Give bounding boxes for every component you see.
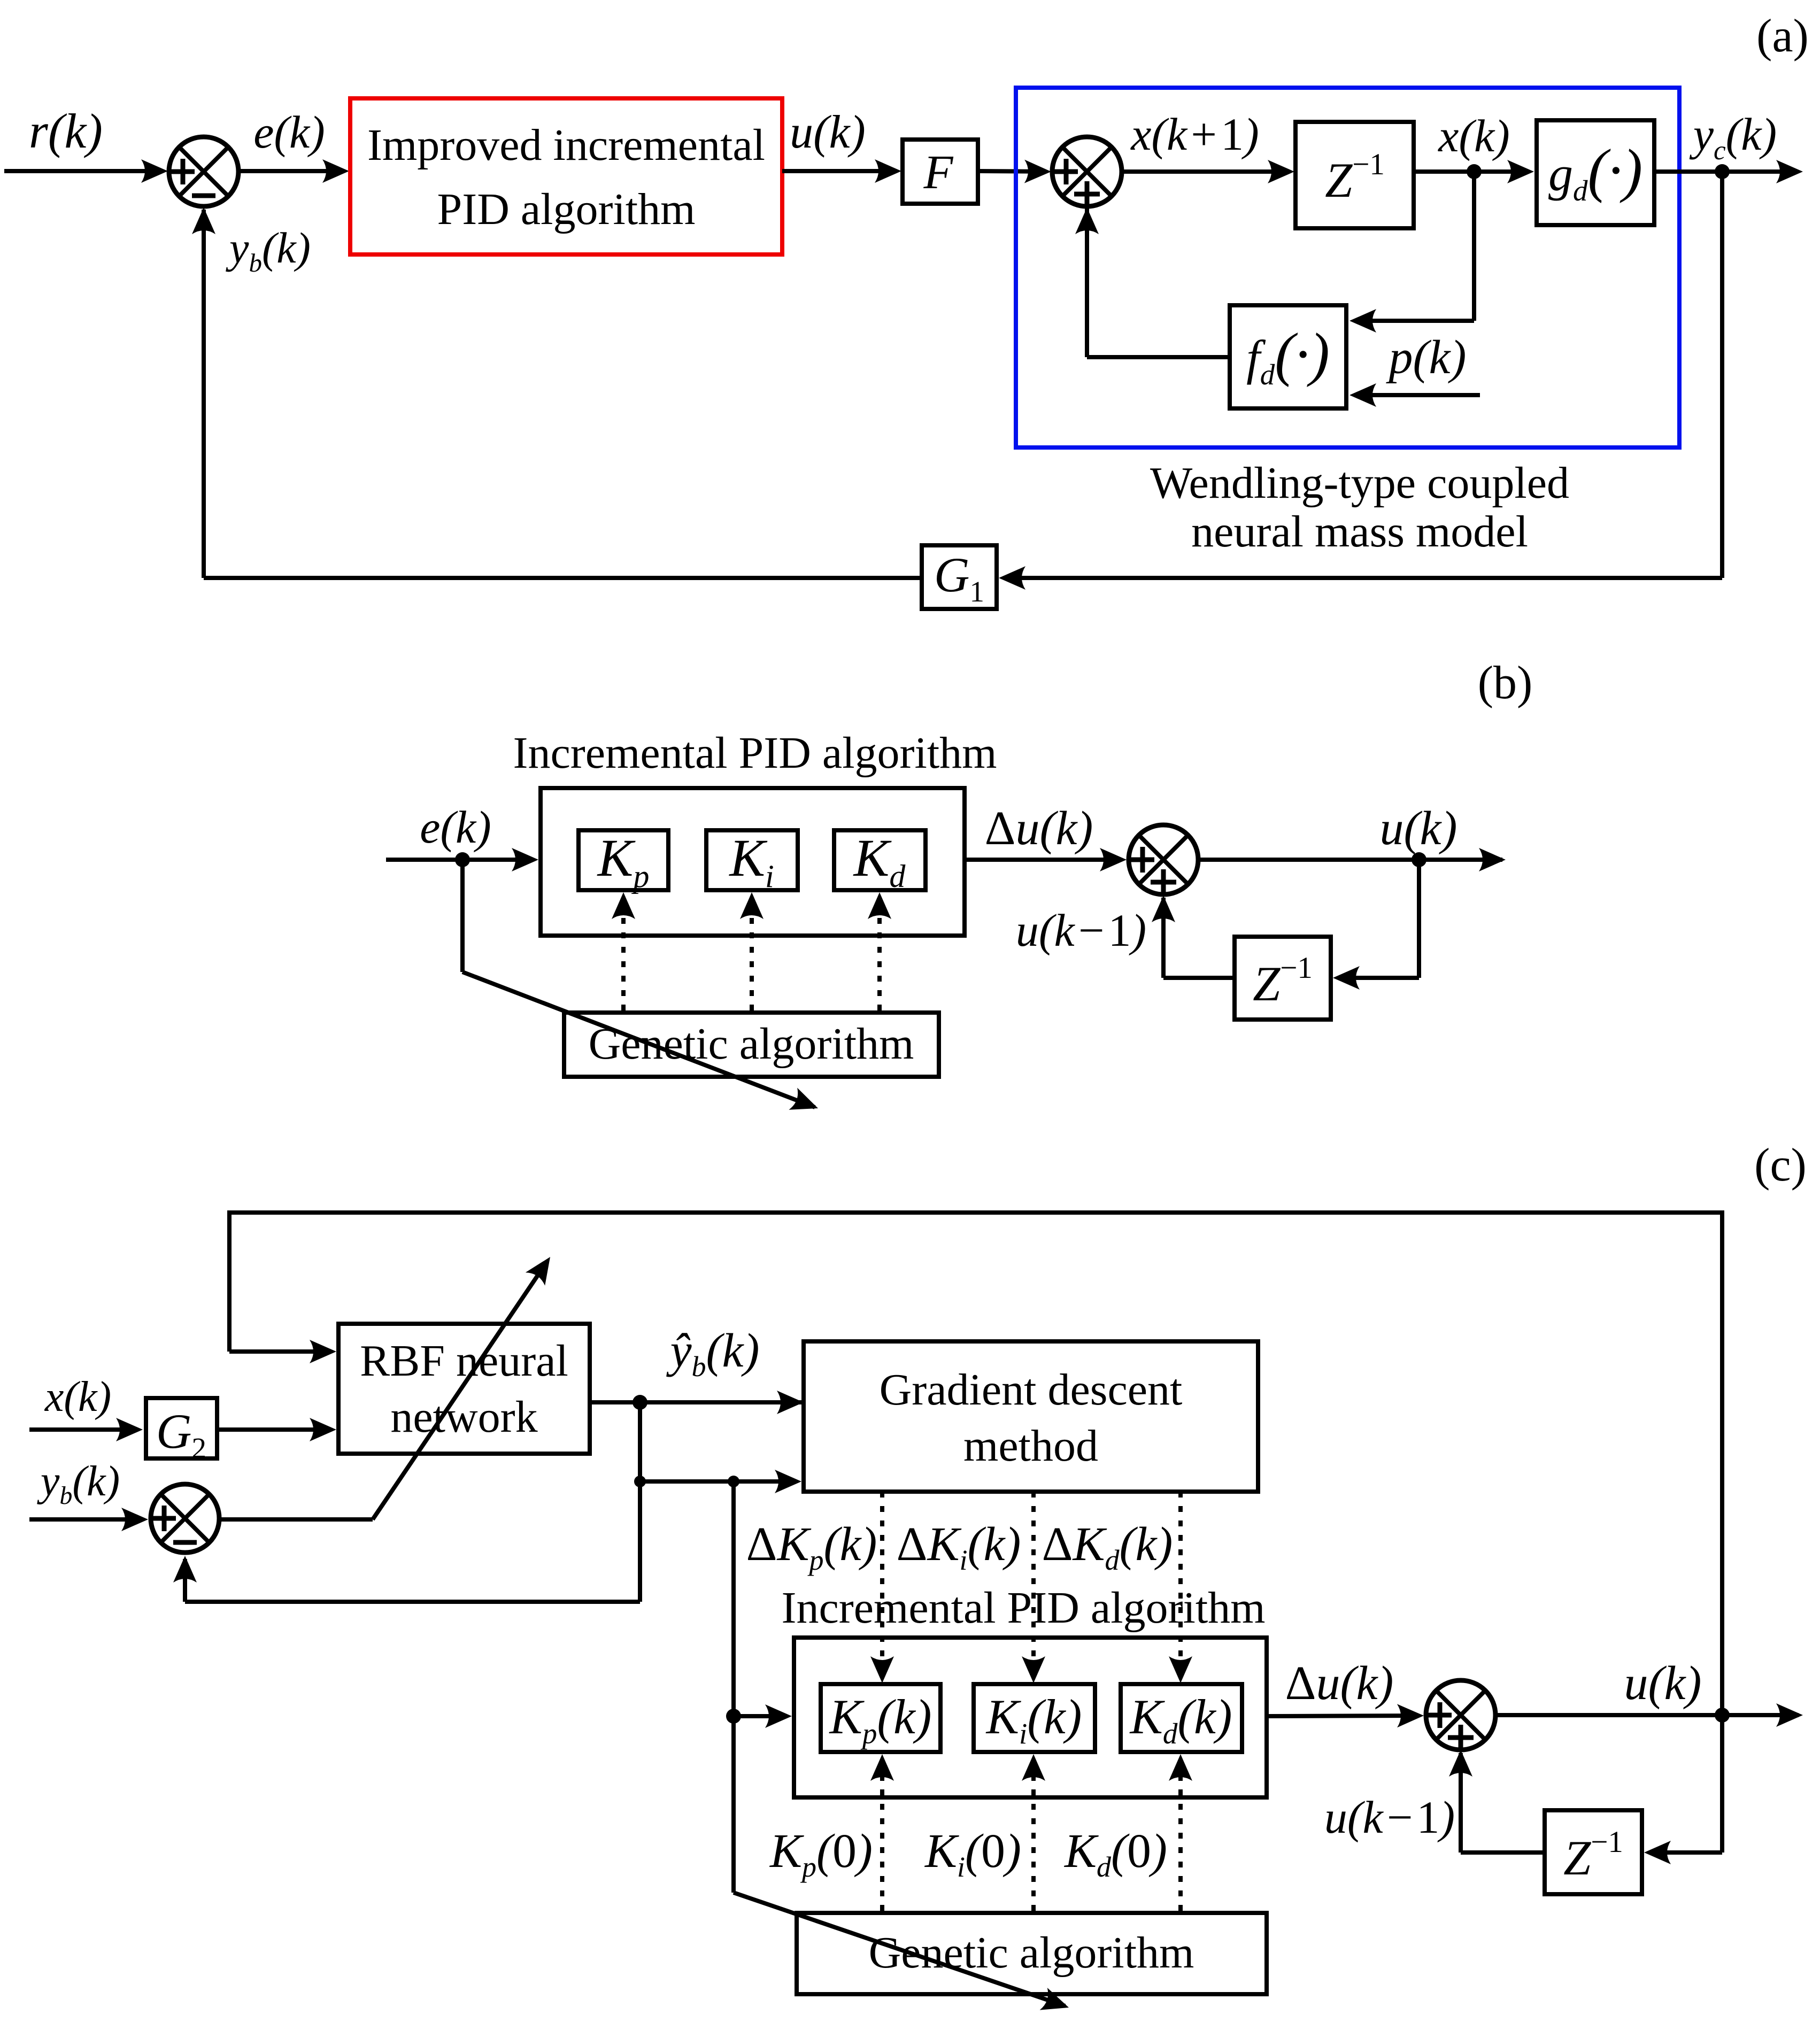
- svg-text:Kp(k): Kp(k): [829, 1689, 932, 1750]
- svg-text:x(k): x(k): [44, 1373, 111, 1421]
- svg-text:F: F: [923, 146, 954, 199]
- svg-text:Incremental PID algorithm: Incremental PID algorithm: [513, 728, 997, 778]
- svg-text:u(k): u(k): [1380, 802, 1457, 855]
- svg-text:(b): (b): [1478, 657, 1533, 709]
- svg-text:(a): (a): [1756, 10, 1809, 62]
- svg-text:r(k): r(k): [29, 104, 103, 158]
- svg-text:Incremental PID algorithm: Incremental PID algorithm: [781, 1583, 1265, 1633]
- svg-text:Genetic algorithm: Genetic algorithm: [869, 1928, 1194, 1978]
- svg-text:ΔKi(k): ΔKi(k): [897, 1518, 1021, 1576]
- svg-text:e(k): e(k): [420, 801, 491, 853]
- svg-text:Δu(k): Δu(k): [1285, 1657, 1394, 1710]
- svg-text:Ki(k): Ki(k): [985, 1689, 1082, 1750]
- svg-text:Kd(0): Kd(0): [1063, 1825, 1167, 1883]
- svg-text:u(k): u(k): [1624, 1657, 1702, 1710]
- svg-text:yc(k): yc(k): [1689, 109, 1777, 166]
- svg-text:method: method: [963, 1421, 1098, 1471]
- svg-text:Kd(k): Kd(k): [1129, 1689, 1232, 1750]
- svg-text:Wendling-type coupled: Wendling-type coupled: [1150, 458, 1569, 508]
- svg-text:PID algorithm: PID algorithm: [437, 184, 696, 234]
- svg-text:yb(k): yb(k): [37, 1458, 120, 1510]
- svg-text:Ki(0): Ki(0): [924, 1825, 1021, 1883]
- svg-text:Improved incremental: Improved incremental: [367, 120, 765, 170]
- svg-text:ŷb(k): ŷb(k): [666, 1324, 760, 1383]
- svg-text:e(k): e(k): [253, 106, 325, 158]
- svg-text:x(k): x(k): [1437, 110, 1510, 161]
- svg-text:gd(·): gd(·): [1548, 137, 1642, 207]
- svg-text:network: network: [390, 1392, 537, 1442]
- svg-text:x(k + 1): x(k + 1): [1130, 109, 1259, 160]
- svg-text:Genetic algorithm: Genetic algorithm: [589, 1019, 914, 1069]
- svg-text:(c): (c): [1754, 1139, 1807, 1191]
- svg-text:Gradient descent: Gradient descent: [880, 1365, 1183, 1415]
- svg-text:u(k − 1): u(k − 1): [1324, 1792, 1455, 1843]
- svg-text:yb(k): yb(k): [226, 223, 311, 277]
- svg-text:RBF neural: RBF neural: [360, 1336, 568, 1386]
- svg-text:fd(·): fd(·): [1246, 321, 1330, 391]
- svg-text:u(k): u(k): [790, 106, 866, 158]
- svg-text:u(k − 1): u(k − 1): [1016, 905, 1146, 956]
- svg-text:Δu(k): Δu(k): [985, 802, 1093, 855]
- svg-text:Kp(0): Kp(0): [769, 1825, 873, 1883]
- svg-text:neural mass model: neural mass model: [1191, 507, 1528, 557]
- svg-text:p(k): p(k): [1386, 331, 1467, 384]
